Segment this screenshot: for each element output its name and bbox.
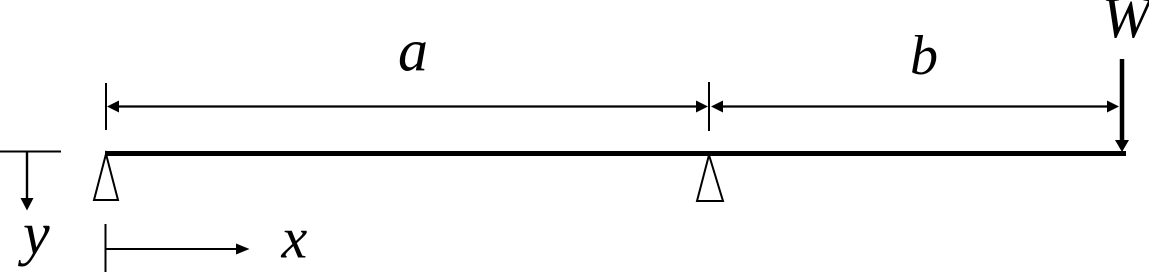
support B (middle pin triangle) — [697, 155, 723, 201]
svg-text:x: x — [281, 206, 308, 271]
x-axis origin line — [105, 224, 107, 272]
beam — [105, 151, 1126, 156]
svg-text:a: a — [398, 18, 428, 84]
dimension line b — [722, 105, 1108, 107]
dimension line a — [117, 105, 697, 107]
x-axis arrow line — [106, 248, 237, 250]
arrowhead b left — [711, 101, 723, 113]
svg-text:y: y — [17, 201, 50, 267]
support A (left pin triangle) — [94, 154, 118, 200]
arrowhead b right — [1107, 101, 1119, 113]
y-axis arrowhead — [21, 198, 34, 211]
load W arrow line — [1120, 59, 1125, 142]
x-axis arrowhead — [236, 244, 250, 255]
extension tick at left support — [105, 83, 107, 130]
arrowhead a left — [107, 101, 119, 113]
y-axis datum line — [0, 151, 61, 153]
svg-text:b: b — [910, 25, 938, 87]
extension tick at middle support — [708, 82, 710, 131]
y-axis arrow line — [26, 152, 28, 199]
load W arrowhead — [1115, 140, 1129, 152]
svg-text:W: W — [1102, 0, 1149, 50]
arrowhead a right — [696, 101, 708, 113]
